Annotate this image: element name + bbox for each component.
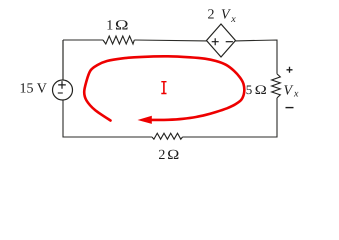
label I (loop current) (161, 82, 166, 94)
label + polarity of Vx (287, 67, 293, 73)
label - polarity of Vx (286, 107, 294, 109)
svg-text:V: V (221, 8, 231, 23)
resistor R 2-ohm (bottom) (152, 133, 182, 139)
label 1 ohm (106, 19, 129, 34)
svg-text:2: 2 (158, 148, 165, 163)
svg-text:x: x (293, 89, 299, 100)
label 5 ohm (246, 82, 267, 97)
wire right-bottom from resistor to corner (183, 98, 278, 137)
current loop arrow (red) (84, 56, 244, 124)
svg-text:15 V: 15 V (20, 82, 47, 97)
label Vx (284, 84, 300, 100)
wire bottom-left from resistor to source (63, 100, 152, 137)
svg-text:x: x (230, 14, 236, 25)
svg-text:Ω: Ω (167, 148, 180, 163)
wire top-middle from resistor to dependent source (134, 39, 206, 42)
svg-text:Ω: Ω (115, 19, 129, 34)
label 15 V (20, 82, 47, 97)
svg-text:1: 1 (106, 19, 113, 34)
resistor R 1-ohm (top) (103, 36, 134, 44)
svg-text:5: 5 (246, 82, 253, 97)
label 2 Vx (208, 8, 237, 25)
wire top-left from source to 1-ohm resistor (63, 39, 103, 41)
wire top-right from dependent source to corner (236, 40, 278, 74)
svg-text:V: V (284, 84, 294, 99)
voltage source V1 15V (circle) (53, 80, 73, 100)
svg-text:Ω: Ω (255, 82, 268, 97)
label 2 ohm (158, 148, 179, 163)
svg-text:2: 2 (208, 8, 215, 23)
resistor R 5-ohm (right) (272, 74, 281, 98)
wire left from top corner to source (62, 40, 64, 80)
dependent source U1 (diamond 2Vx) (207, 24, 236, 57)
